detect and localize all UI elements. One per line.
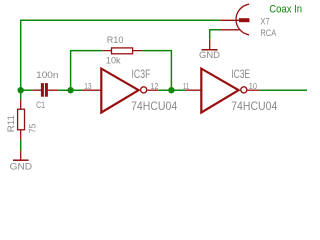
junction node C1 right: [67, 87, 73, 93]
svg-text:R11: R11: [6, 115, 17, 132]
ground symbol under coax: [202, 40, 218, 50]
svg-text:IC3E: IC3E: [231, 68, 250, 81]
junction node left: [18, 87, 24, 93]
svg-text:R10: R10: [107, 35, 124, 46]
wire top horizontal: [21, 19, 221, 21]
svg-text:C1: C1: [36, 100, 45, 111]
ground symbol under R11: [13, 151, 29, 161]
svg-text:IC3F: IC3F: [132, 68, 151, 81]
svg-text:GND: GND: [10, 161, 33, 172]
svg-text:RCA: RCA: [260, 28, 276, 39]
svg-text:75: 75: [28, 124, 39, 133]
svg-text:X7: X7: [260, 16, 269, 27]
inverter IC3E: [185, 69, 260, 113]
svg-text:10k: 10k: [106, 55, 121, 66]
wire C1 to IC3F input: [58, 89, 82, 91]
svg-text:10: 10: [249, 81, 257, 91]
wire R10 left vertical: [70, 51, 72, 91]
wire IC3F output to IC3E input: [158, 89, 185, 91]
wire junction A to C1: [21, 89, 33, 91]
resistor R10: [102, 48, 142, 54]
wire coax shield to GND: [210, 30, 221, 40]
wire R11 bottom to GND: [20, 140, 22, 151]
svg-text:74HCU04: 74HCU04: [131, 100, 178, 113]
wire IC3E output to right edge: [260, 89, 307, 91]
junction node IC3F output: [168, 87, 174, 93]
svg-text:11: 11: [183, 81, 190, 91]
svg-text:12: 12: [151, 81, 159, 91]
svg-text:13: 13: [84, 81, 92, 91]
wire left vertical: [20, 20, 22, 100]
inverter IC3F: [82, 69, 158, 113]
wire R10 right vertical: [170, 51, 172, 91]
wire R10 right horizontal: [142, 50, 172, 52]
capacitor C1: [33, 83, 58, 97]
resistor R11: [18, 99, 25, 140]
svg-text:GND: GND: [199, 50, 220, 61]
svg-text:100n: 100n: [36, 70, 58, 81]
connector X7 coax jack: [220, 4, 249, 35]
wire R10 left horizontal: [70, 50, 102, 52]
svg-text:74HCU04: 74HCU04: [231, 100, 278, 113]
svg-text:Coax In: Coax In: [269, 3, 302, 15]
